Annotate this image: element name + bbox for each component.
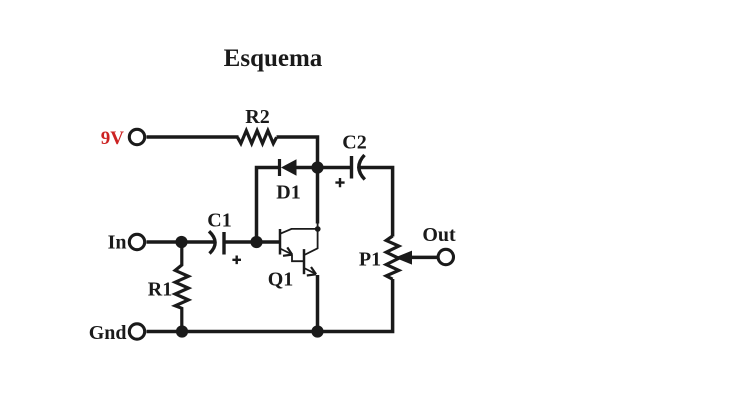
svg-text:Gnd: Gnd (89, 322, 127, 344)
wire wiper to Out (412, 256, 438, 260)
wire D1 to junction (296, 166, 318, 170)
svg-text:R1: R1 (148, 279, 172, 301)
transistor Q1 collector 1 (280, 229, 318, 234)
terminal Gnd (129, 324, 144, 339)
terminal 9V (129, 129, 144, 144)
svg-text:Esquema: Esquema (224, 45, 323, 72)
node base junction (250, 236, 262, 248)
transistor Q1 base bar 2 (303, 249, 306, 274)
wire emitter1 to base2 (292, 254, 304, 261)
node R1/ground junction (176, 325, 188, 337)
svg-text:In: In (108, 232, 127, 254)
label C1 plus (232, 256, 241, 265)
diode D1 cathode bar (278, 159, 281, 176)
transistor Q1 base bar 1 (279, 229, 282, 255)
svg-text:9V: 9V (101, 128, 125, 149)
label C2 plus (335, 178, 344, 187)
svg-text:Q1: Q1 (268, 269, 294, 291)
transistor Q1 emitter 1 (280, 249, 292, 255)
node In/R1 junction (175, 236, 187, 248)
svg-text:Out: Out (422, 224, 456, 246)
capacitor C1 plate (curved) (209, 231, 215, 253)
transistor Q1 emitter 1 arrowhead (283, 247, 292, 255)
transistor Q1 emitter 2 arrowhead (307, 267, 316, 276)
node diode junction (311, 161, 323, 173)
diode D1 triangle (281, 159, 297, 175)
wire junction to C2 (318, 166, 352, 170)
terminal Out (438, 249, 453, 264)
resistor R1 (175, 242, 188, 332)
potentiometer P1 (386, 236, 399, 279)
wire R2 to corner down to collector column (277, 137, 318, 224)
wire C1 to Q1 base (224, 240, 279, 244)
node collector junction (315, 226, 321, 232)
capacitor C1 plate (straight, +) (222, 232, 225, 255)
transistor Q1 collector 2 (304, 223, 317, 256)
wire emitter2 down to ground rail (316, 275, 320, 332)
wire 9V to R2 (147, 135, 239, 139)
resistor R2 (238, 131, 277, 144)
wire D1 anode left and down to base node (257, 168, 281, 243)
svg-text:D1: D1 (276, 182, 300, 204)
svg-text:R2: R2 (245, 106, 269, 128)
potentiometer P1 wiper arrow (395, 251, 412, 265)
wire C2 to P1 top (359, 168, 393, 237)
svg-text:P1: P1 (359, 249, 381, 271)
wire ground rail (147, 279, 393, 332)
wire In to C1 (147, 240, 215, 244)
svg-text:C2: C2 (342, 132, 366, 154)
capacitor C2 plate (curved) (359, 155, 365, 180)
capacitor C2 plate (straight, +) (350, 156, 353, 179)
transistor Q1 emitter 2 (304, 268, 316, 274)
terminal In (129, 234, 144, 249)
svg-text:C1: C1 (207, 210, 231, 232)
node emitter/ground junction (311, 325, 323, 337)
